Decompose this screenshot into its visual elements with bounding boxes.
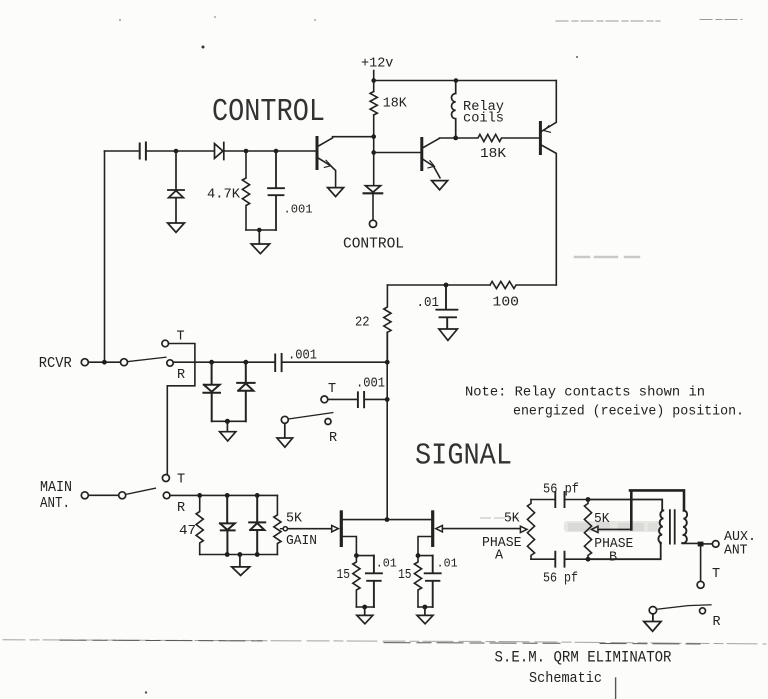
node clamp4 tap xyxy=(255,493,260,498)
diode D7 clamp up xyxy=(249,495,265,554)
svg-text:energized (receive) position.: energized (receive) position. xyxy=(513,404,744,420)
power rail +12 xyxy=(374,80,557,82)
diode D1 series input xyxy=(215,143,224,160)
terminal AUX ANT xyxy=(712,541,719,548)
relay coil xyxy=(452,81,456,138)
svg-text:R: R xyxy=(177,368,185,383)
capacitor .001 control xyxy=(268,151,284,230)
svg-text:CONTROL: CONTROL xyxy=(212,93,325,130)
svg-text:.001: .001 xyxy=(284,203,313,217)
scan artifact bottom rule xyxy=(3,640,766,644)
svg-text:18K: 18K xyxy=(480,147,507,162)
svg-text:.01: .01 xyxy=(417,296,440,311)
svg-text:47: 47 xyxy=(179,524,196,539)
svg-text:MAIN: MAIN xyxy=(40,480,72,496)
svg-text:GAIN: GAIN xyxy=(286,534,317,549)
ground below rail xyxy=(251,230,269,254)
svg-text:Schematic: Schematic xyxy=(529,670,602,687)
wire RCVR line xyxy=(173,361,387,363)
node phase B top xyxy=(586,497,591,502)
resistor 5K phase A pot xyxy=(527,500,534,560)
wire J1 rc top xyxy=(356,555,374,557)
speck c xyxy=(145,691,147,693)
resistor 4.7K xyxy=(242,151,249,230)
gain pot wiper xyxy=(283,527,287,531)
wire J2 gate xyxy=(443,528,521,530)
svg-text:R: R xyxy=(713,615,721,630)
diode D5 clamp up xyxy=(237,362,254,421)
ground below Q1 emitter xyxy=(328,188,344,197)
switch S3 arm xyxy=(288,413,333,419)
wire 18K to control diode xyxy=(373,115,375,185)
node clamp 2 xyxy=(243,360,248,365)
svg-text:5K: 5K xyxy=(286,512,303,527)
node clamp 1 xyxy=(209,360,214,365)
svg-text:A: A xyxy=(495,549,504,564)
svg-text:ANT: ANT xyxy=(724,544,748,559)
wire to aux terminal xyxy=(704,543,713,545)
switch S4 arm xyxy=(657,605,711,610)
switch S1 contact T xyxy=(162,340,169,347)
wire secondary bottom xyxy=(682,542,697,544)
node clamp3 tap xyxy=(225,493,230,498)
wire cap to vertical xyxy=(365,398,388,400)
wire Q2 collector to node xyxy=(440,137,456,139)
resistor 15 left xyxy=(353,556,360,607)
capacitor .01 right xyxy=(425,556,441,607)
transformer secondary xyxy=(682,510,687,543)
node ground rail xyxy=(257,228,262,233)
svg-text:.01: .01 xyxy=(376,557,397,571)
resistor 5K gain pot xyxy=(274,495,281,554)
wire primary feed xyxy=(588,500,662,511)
ground below S4 xyxy=(644,614,661,631)
node .001 tap xyxy=(274,149,279,154)
svg-text:ANT.: ANT. xyxy=(40,496,70,512)
phase B wiper arrow xyxy=(591,526,598,532)
wire left vertical drop xyxy=(104,151,106,362)
node 22 tee xyxy=(385,360,390,365)
wire diode to CONTROL terminal xyxy=(372,194,374,221)
speck b xyxy=(576,56,578,58)
node clamp ground xyxy=(225,419,230,424)
resistor 47 xyxy=(196,495,203,554)
capacitor input coupling xyxy=(140,143,146,160)
switch S1 pivot xyxy=(121,359,128,366)
svg-text:S.E.M. QRM ELIMINATOR: S.E.M. QRM ELIMINATOR xyxy=(495,649,672,667)
transistor Q1 xyxy=(316,138,319,169)
wire aux T drop xyxy=(700,546,702,581)
svg-text:R: R xyxy=(177,501,185,516)
wire phase bottom left xyxy=(531,558,555,560)
node rail c xyxy=(255,552,260,557)
wire drain rail xyxy=(386,519,431,521)
wire +12v stub xyxy=(373,71,375,92)
node phase B bottom xyxy=(586,557,591,562)
switch S4 pivot xyxy=(649,607,656,614)
node Q1 collector junction xyxy=(371,134,376,139)
switch S2 arm xyxy=(126,488,156,494)
wire T to cap xyxy=(328,398,358,400)
node input junction xyxy=(174,149,179,154)
wire RCVR to pivot xyxy=(88,361,120,363)
wire bypass bottom left xyxy=(387,284,490,286)
resistor 15 right xyxy=(414,556,421,607)
capacitor 56pf bottom xyxy=(555,552,564,567)
resistor 100 xyxy=(490,281,556,288)
capacitor .001 tee xyxy=(358,392,364,407)
ghost bleed band xyxy=(564,521,661,532)
terminal CONTROL xyxy=(369,220,376,227)
wire B wiper right xyxy=(598,528,631,530)
switch S2 contact T xyxy=(162,475,169,482)
resistor 22 xyxy=(384,285,391,362)
ground below S3 xyxy=(277,423,293,447)
svg-text:.01: .01 xyxy=(437,557,458,571)
ground below D2 xyxy=(168,223,185,232)
wire MAIN ANT to pivot xyxy=(88,494,118,496)
svg-text:T: T xyxy=(177,473,185,488)
svg-text:5K: 5K xyxy=(504,512,520,527)
resistor 5K phase B pot xyxy=(584,500,591,560)
transistor Q2 xyxy=(420,139,423,170)
svg-text:.001: .001 xyxy=(356,377,385,392)
wire clamp rail lower xyxy=(200,554,278,556)
switch S4 contact R xyxy=(700,608,706,614)
node Q2 collector / relay / 18K xyxy=(453,136,458,141)
wire ground rail under 4.7K xyxy=(246,229,276,231)
svg-text:.001: .001 xyxy=(288,349,317,364)
svg-text:coils: coils xyxy=(463,112,504,127)
scan artifact bottom right tick xyxy=(615,678,617,699)
wire signal line lower xyxy=(170,494,278,496)
wire J1 rc bottom xyxy=(356,606,374,608)
capacitor 56pf top xyxy=(555,492,564,507)
svg-text:T: T xyxy=(177,330,185,345)
wire J2 rc top xyxy=(418,555,433,557)
transistor J2 right JFET xyxy=(431,512,434,546)
ground below .01 xyxy=(439,329,458,340)
node rail b xyxy=(238,552,243,557)
transformer primary xyxy=(658,510,664,543)
svg-text:T: T xyxy=(328,382,336,397)
wire wiper riser xyxy=(630,491,633,529)
switch S3 contact T xyxy=(321,396,328,403)
wire input top left xyxy=(105,150,139,152)
wire phase top right xyxy=(565,499,588,501)
ground below J2 xyxy=(417,607,433,624)
transistor J1 left JFET xyxy=(340,512,343,546)
switch S1 contact R xyxy=(167,360,173,366)
resistor 18K right xyxy=(456,134,539,141)
svg-text:5K: 5K xyxy=(594,512,610,527)
phase A wiper arrow xyxy=(520,526,527,532)
switch S4 contact T xyxy=(697,581,704,588)
switch S2 contact R xyxy=(163,492,170,499)
svg-text:SIGNAL: SIGNAL xyxy=(415,438,512,473)
capacitor .01 bypass xyxy=(436,285,457,328)
node .01 bypass tap xyxy=(444,283,449,288)
node aux square xyxy=(698,542,704,547)
resistor 18K left xyxy=(370,92,377,116)
diode D4 clamp down xyxy=(203,362,220,421)
svg-text:R: R xyxy=(329,431,337,446)
node left drop junction xyxy=(102,360,107,365)
diode D3 control xyxy=(365,186,380,193)
transformer core xyxy=(670,510,675,543)
capacitor .001 line xyxy=(275,354,281,371)
wire primary bottom xyxy=(588,543,661,559)
switch S3 pivot xyxy=(281,416,288,423)
wire diode to Q1 base xyxy=(225,150,317,152)
switch S3 contact R xyxy=(325,419,331,425)
wire phase top left xyxy=(531,499,555,501)
capacitor .01 left xyxy=(366,556,382,607)
svg-text:Note: Relay contacts shown in: Note: Relay contacts shown in xyxy=(465,385,705,401)
node rail relay tap xyxy=(454,78,459,83)
wire cap to diode xyxy=(147,150,214,152)
diode D6 clamp down xyxy=(220,495,235,554)
svg-text:22: 22 xyxy=(355,316,370,331)
svg-text:RCVR: RCVR xyxy=(39,355,72,372)
node drain junction xyxy=(385,517,390,522)
svg-text:CONTROL: CONTROL xyxy=(343,237,404,253)
diode D2 to ground xyxy=(168,151,184,222)
ground below Q2 emitter xyxy=(432,181,448,190)
scan artifact top rule xyxy=(556,20,742,22)
ground below rail lower xyxy=(232,555,250,576)
wire Q2 base xyxy=(374,152,421,154)
wire transformer top link xyxy=(630,490,684,510)
node tee cap xyxy=(385,397,390,402)
node +12 rail tap xyxy=(371,78,376,83)
terminal RCVR xyxy=(81,359,88,366)
wire center vertical xyxy=(386,332,388,519)
svg-text:15: 15 xyxy=(398,568,412,583)
transistor Q3 xyxy=(539,123,542,154)
wire phase bottom right xyxy=(565,558,588,560)
node J2 source xyxy=(416,553,421,558)
wire T link down xyxy=(167,344,195,475)
speck a xyxy=(202,46,205,49)
terminal MAIN ANT xyxy=(81,492,88,499)
svg-text:15: 15 xyxy=(337,568,351,583)
ground below J1 xyxy=(357,607,373,624)
svg-text:56 pf: 56 pf xyxy=(543,572,578,587)
scan streak mid right xyxy=(575,256,644,259)
node Q2 base junction xyxy=(371,150,376,155)
wire clamp bottom xyxy=(212,420,246,422)
svg-text:B: B xyxy=(609,551,617,566)
node 47 tap xyxy=(197,493,202,498)
wire J2 rc bottom xyxy=(418,606,433,608)
wire Q1 collector xyxy=(333,136,374,138)
node rail a xyxy=(225,552,230,557)
node 4.7K tap xyxy=(244,149,249,154)
ground below clamps xyxy=(220,421,236,441)
svg-text:4.7K: 4.7K xyxy=(207,188,241,203)
node J1 source xyxy=(354,553,359,558)
svg-text:T: T xyxy=(712,567,720,582)
node J2 gnd xyxy=(423,605,428,610)
switch S1 arm xyxy=(128,357,167,361)
wire wiper to gate xyxy=(289,528,332,530)
speck d xyxy=(119,19,121,21)
svg-text:56 pf: 56 pf xyxy=(543,483,579,498)
svg-text:+12v: +12v xyxy=(361,57,393,72)
svg-text:18K: 18K xyxy=(383,97,408,112)
switch S2 pivot xyxy=(119,492,126,499)
node J1 gnd xyxy=(362,605,367,610)
svg-text:100: 100 xyxy=(493,296,520,311)
